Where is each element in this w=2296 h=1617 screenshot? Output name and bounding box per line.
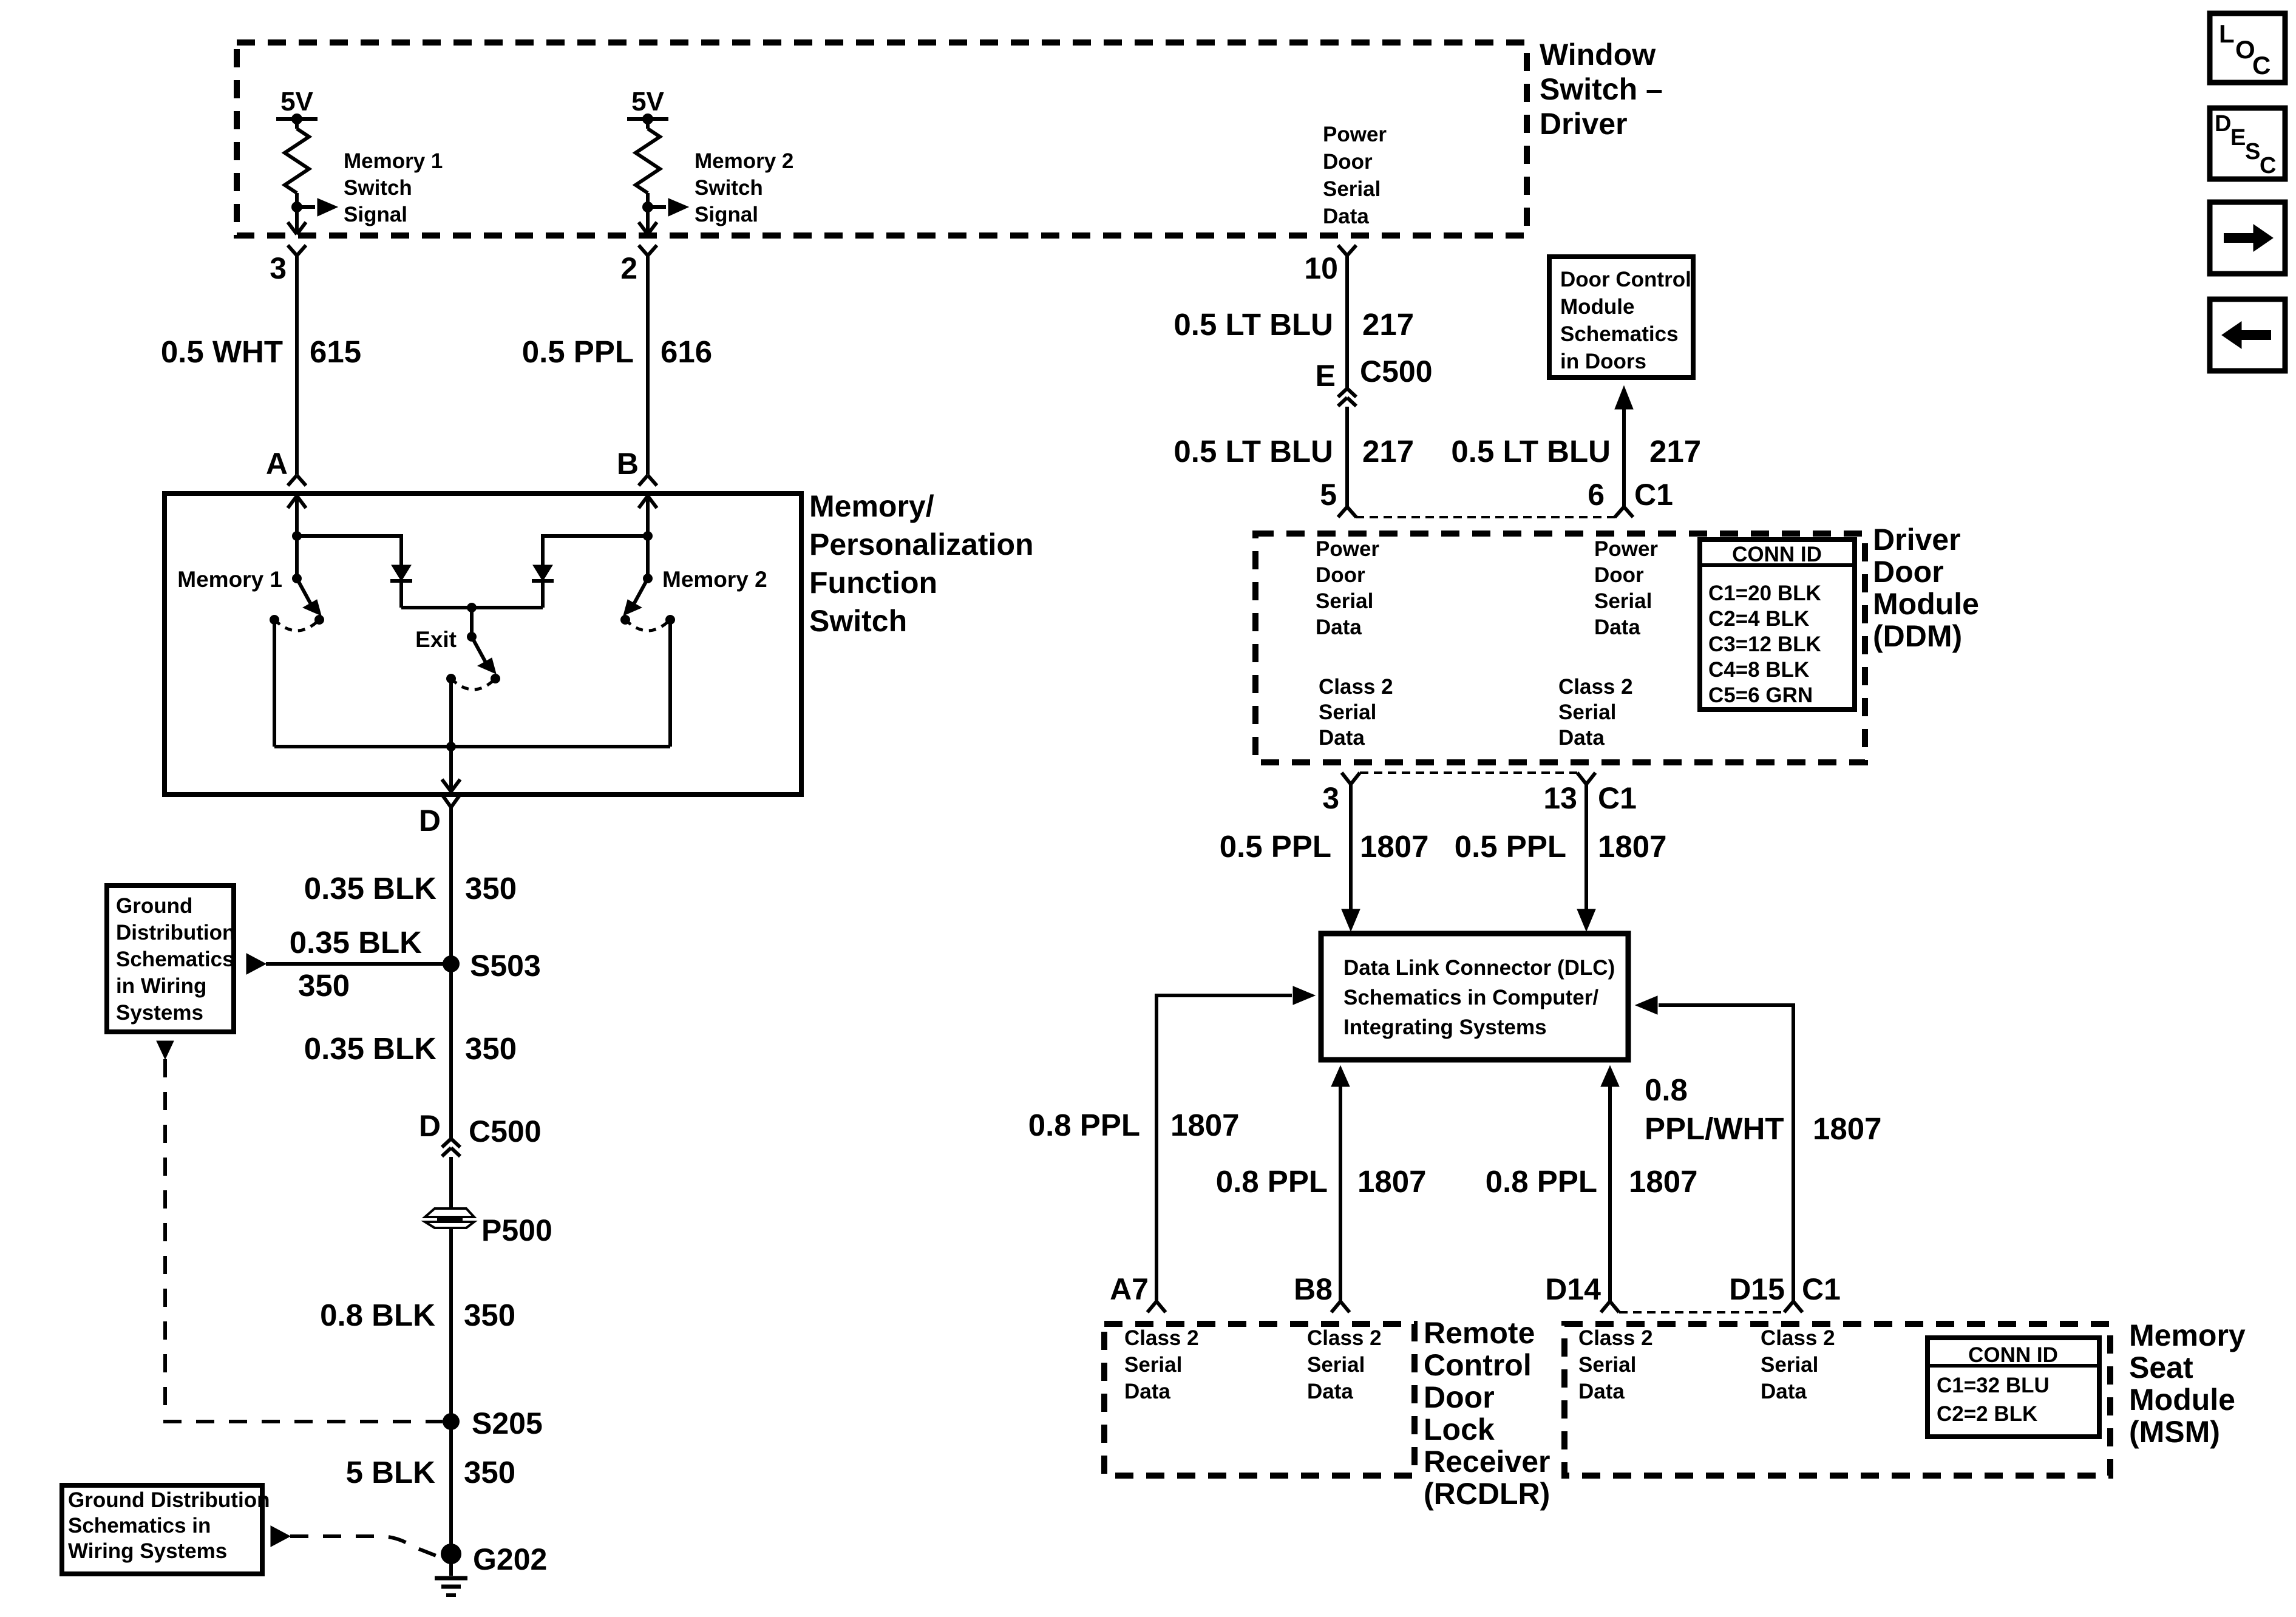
arrow: into switch at B (chevron) [639, 496, 657, 508]
svg-text:D: D [419, 1109, 441, 1143]
resistor: memory 1 pullup [285, 119, 309, 207]
svg-text:2: 2 [620, 251, 637, 285]
svg-text:(MSM): (MSM) [2129, 1415, 2220, 1449]
wire: circuit 1807 (pin 13 to DLC) [1584, 784, 1588, 910]
node: diode common [467, 603, 477, 612]
svg-text:Systems: Systems [116, 1001, 203, 1025]
label: DLC Schematics in Computer/Integrating Systems [1343, 956, 1615, 1039]
wire: circuit 350 (S503 to C500) [449, 964, 453, 1139]
svg-text:Memory/: Memory/ [809, 489, 934, 523]
pin D15 [1729, 1272, 1785, 1306]
svg-text:1807: 1807 [1629, 1164, 1697, 1199]
arrow: into DLC (from A7) [1293, 986, 1315, 1005]
svg-text:B: B [617, 447, 639, 481]
icon box: LOC [2210, 13, 2285, 83]
svg-text:Data: Data [1558, 726, 1605, 750]
svg-text:Serial: Serial [1307, 1353, 1365, 1377]
label: Remote Control Door Lock Receiver (RCDLR) [1424, 1316, 1550, 1511]
label: Class 2 Serial Data (MSM D15) [1761, 1326, 1835, 1403]
label: Power Door Serial Data (DDM right) [1594, 537, 1658, 639]
splice S205 [443, 1413, 460, 1430]
svg-text:615: 615 [310, 334, 361, 369]
switch arm: Exit [472, 637, 496, 674]
svg-text:3: 3 [1322, 781, 1339, 815]
svg-text:E: E [2230, 125, 2246, 151]
svg-text:0.35 BLK: 0.35 BLK [304, 1031, 436, 1066]
arrow: into DLC (from D15) [1635, 996, 1657, 1014]
svg-text:Memory 1: Memory 1 [344, 149, 443, 173]
svg-text:Power: Power [1323, 123, 1387, 146]
svg-text:3: 3 [270, 251, 287, 285]
connector P500 (pass-through) [425, 1209, 474, 1228]
svg-text:5V: 5V [631, 87, 664, 117]
svg-text:Class 2: Class 2 [1319, 675, 1393, 699]
svg-text:Switch: Switch [809, 604, 907, 638]
label: 0.35 BLK 350 (upper) [304, 871, 517, 906]
switch arc: memory 1 (dashed) [274, 620, 319, 631]
label: Memory 1 Switch Signal [344, 149, 443, 226]
svg-text:C2=2 BLK: C2=2 BLK [1937, 1402, 2037, 1426]
module box: Driver Door Module (dashed) [1255, 534, 1865, 762]
pin B8 [1294, 1272, 1333, 1306]
wire: memory 2 to pin 2 [646, 207, 650, 233]
svg-text:Class 2: Class 2 [1124, 1326, 1199, 1350]
node: memory 2 signal junction [642, 202, 653, 212]
connector: terminal D [442, 795, 460, 807]
svg-text:E: E [1316, 359, 1336, 393]
node B [643, 531, 653, 541]
arrow: dashed drop from ground ref 1 [157, 1041, 174, 1059]
label: 0.5 LT BLU 217 (mid) [1173, 434, 1414, 469]
label: 0.5 LT BLU 217 (upper) [1173, 307, 1414, 342]
svg-text:217: 217 [1362, 434, 1414, 469]
svg-text:CONN ID: CONN ID [1968, 1343, 2058, 1367]
switch arm: Memory 2 [623, 578, 648, 615]
label: Memory 2 Switch Signal [695, 149, 793, 226]
label: Memory 2 [662, 567, 767, 592]
label: ground distribution ref 1 [116, 894, 235, 1025]
pin 2 [620, 251, 637, 285]
svg-text:Driver: Driver [1540, 107, 1628, 141]
net 5V (memory 2 pullup) [631, 87, 664, 117]
svg-text:Door: Door [1873, 555, 1944, 589]
svg-text:Schematics in: Schematics in [68, 1514, 211, 1537]
svg-text:D: D [419, 804, 441, 838]
svg-text:350: 350 [464, 1298, 515, 1332]
arrow: into pin 2 (chevron) [639, 222, 657, 234]
svg-text:Serial: Serial [1323, 177, 1381, 201]
svg-text:Data: Data [1124, 1380, 1170, 1403]
node: memory 1 signal junction [291, 202, 302, 212]
svg-text:0.5 WHT: 0.5 WHT [161, 334, 283, 369]
svg-text:C3=12 BLK: C3=12 BLK [1708, 632, 1821, 656]
wire: connector face C1 (dashed) [1356, 516, 1615, 518]
wire: A into switch [295, 496, 299, 536]
label: 0.5 PPL 616 [522, 334, 712, 369]
wire: diode 2 to common [541, 581, 545, 608]
wire: circuit 217 (C500 to pin 5) [1345, 407, 1349, 507]
svg-text:S: S [2245, 139, 2260, 164]
label P500 [481, 1213, 552, 1247]
svg-text:Door: Door [1594, 563, 1644, 587]
svg-text:Control: Control [1424, 1348, 1532, 1382]
wire: MSM connector face C1 (dashed) [1619, 1311, 1784, 1314]
svg-text:C4=8 BLK: C4=8 BLK [1708, 658, 1809, 682]
svg-text:350: 350 [465, 1031, 517, 1066]
svg-text:Memory 2: Memory 2 [695, 149, 793, 173]
svg-text:1807: 1807 [1357, 1164, 1426, 1199]
arrow: from ground ref 2 [271, 1526, 290, 1547]
wire: circuit 217 (pin 6 to door modules) [1622, 409, 1626, 507]
label: Memory Seat Module (MSM) [2129, 1318, 2246, 1449]
svg-text:C500: C500 [1360, 354, 1433, 388]
arrow: memory 2 switch signal [668, 198, 688, 216]
splice S503 [443, 955, 460, 972]
wire: circuit 1807 (D15 to DLC) [1659, 1005, 1793, 1301]
switch: Exit (pivot) [467, 632, 477, 642]
label C1 (pin 6) [1634, 478, 1673, 512]
svg-text:C500: C500 [469, 1114, 542, 1148]
svg-text:Driver: Driver [1873, 523, 1961, 557]
wire: circuit 350 (D to S503) [449, 807, 453, 964]
wire: connector face C1 bottom (dashed) [1360, 771, 1577, 774]
connector: pin 10 (window switch) [1338, 245, 1356, 256]
wire: memory 1 switch feed [295, 536, 299, 578]
svg-text:Switch –: Switch – [1540, 72, 1663, 106]
label: 0.5 WHT 615 [161, 334, 361, 369]
svg-text:0.8 PPL: 0.8 PPL [1028, 1108, 1140, 1142]
label: Memory/Personalization Function Switch [809, 489, 1034, 638]
arrow: out of switch at D (chevron) [442, 779, 460, 792]
wire: dashed ground reference path 1 [165, 1059, 443, 1422]
label: Power Door Serial Data (window switch) [1323, 123, 1387, 228]
wire: S205 to G202 [449, 1422, 453, 1554]
svg-text:Power: Power [1594, 537, 1658, 561]
connector: pin 5 (DDM) [1338, 507, 1356, 517]
svg-text:0.8: 0.8 [1645, 1073, 1688, 1107]
label: 0.8 BLK 350 [320, 1298, 515, 1332]
connector: pin A7 (RCDLR) [1147, 1301, 1166, 1312]
svg-text:D14: D14 [1545, 1272, 1601, 1306]
svg-text:D: D [2215, 111, 2231, 137]
svg-text:Data: Data [1761, 1380, 1807, 1403]
label: 0.35 BLK 350 (lower) [304, 1031, 517, 1066]
wire: C500 to P500 [449, 1157, 453, 1209]
svg-text:Distribution: Distribution [116, 921, 235, 944]
svg-text:Memory: Memory [2129, 1318, 2246, 1352]
label S205 [472, 1406, 543, 1440]
svg-text:Power: Power [1316, 537, 1379, 561]
label: Class 2 Serial Data (RCDLR B8) [1307, 1326, 1382, 1403]
svg-text:Receiver: Receiver [1424, 1445, 1550, 1479]
svg-text:0.5 PPL: 0.5 PPL [1220, 829, 1331, 864]
pin B [617, 447, 639, 481]
wire: circuit 1807 (pin 3 to DLC) [1349, 784, 1353, 910]
label: 0.8 PPL 1807 (A7) [1028, 1108, 1240, 1142]
svg-text:0.5 LT BLU: 0.5 LT BLU [1451, 434, 1611, 469]
svg-text:Serial: Serial [1319, 700, 1376, 724]
svg-text:0.8 BLK: 0.8 BLK [320, 1298, 435, 1332]
label: Window Switch - Driver [1540, 38, 1663, 141]
svg-text:350: 350 [298, 968, 350, 1003]
label C1 (pin 13) [1598, 781, 1637, 815]
label C500 [469, 1114, 542, 1148]
svg-text:217: 217 [1649, 434, 1701, 469]
svg-text:Schematics: Schematics [1560, 322, 1679, 346]
svg-text:in Wiring: in Wiring [116, 974, 206, 998]
svg-text:Exit: Exit [415, 627, 457, 652]
pin 6 [1588, 478, 1605, 512]
svg-text:Serial: Serial [1558, 700, 1616, 724]
svg-text:Data: Data [1316, 615, 1362, 639]
module box: Remote Control Door Lock Receiver (dashed) [1104, 1324, 1415, 1476]
connector: pin 3 C1 (DDM) [1342, 773, 1360, 784]
wire: memory 2 switch feed [646, 536, 650, 578]
svg-text:Door Control: Door Control [1560, 268, 1691, 291]
label: 0.8 PPL/WHT 1807 (D15) [1645, 1073, 1881, 1146]
label: Class 2 Serial Data (MSM D14) [1578, 1326, 1653, 1403]
wire: B into switch [646, 496, 650, 536]
wire: memory 1 contact to bus [273, 620, 276, 747]
label: Exit [415, 627, 457, 652]
svg-text:0.8 PPL: 0.8 PPL [1486, 1164, 1597, 1199]
svg-text:Data: Data [1307, 1380, 1353, 1403]
label C1 (pin D15) [1802, 1272, 1841, 1306]
svg-text:0.5 LT BLU: 0.5 LT BLU [1173, 307, 1333, 342]
label: 0.8 PPL 1807 (D14) [1486, 1164, 1698, 1199]
pin 13 (DDM) [1543, 781, 1577, 815]
svg-text:PPL/WHT: PPL/WHT [1645, 1111, 1784, 1146]
svg-text:Ground Distribution: Ground Distribution [68, 1488, 270, 1512]
svg-text:L: L [2219, 19, 2235, 48]
node A [292, 531, 302, 541]
icon box: back arrow [2210, 299, 2285, 371]
svg-text:Serial: Serial [1124, 1353, 1182, 1377]
arrow: into DLC (from pin 3) [1342, 909, 1360, 931]
svg-text:Function: Function [809, 566, 937, 600]
svg-text:Class 2: Class 2 [1558, 675, 1633, 699]
label: 350 under branch [298, 968, 350, 1003]
svg-text:217: 217 [1362, 307, 1414, 342]
pin D14 [1545, 1272, 1601, 1306]
svg-text:Serial: Serial [1316, 589, 1373, 613]
svg-text:Serial: Serial [1761, 1353, 1818, 1377]
svg-text:Module: Module [2129, 1383, 2235, 1417]
arrow: memory 1 switch signal [318, 198, 338, 216]
label S503 [470, 949, 541, 983]
node: 5V junction 1 [291, 114, 302, 124]
label: ground distribution ref 2 [68, 1488, 270, 1563]
wire: diode 1 to common [399, 581, 403, 608]
svg-text:5: 5 [1320, 478, 1337, 512]
label: Memory 1 [177, 567, 282, 592]
contact: memory 2 right [665, 615, 675, 625]
connector: pin 3 (window switch) [288, 245, 306, 256]
table: DDM CONN ID [1700, 540, 1855, 710]
label: Driver Door Module (DDM) [1873, 523, 1979, 653]
switch arm: Memory 1 [297, 578, 321, 615]
svg-text:C1: C1 [1598, 781, 1637, 815]
label: door control module ref [1560, 268, 1691, 373]
arrow: into DLC (from D14) [1601, 1066, 1619, 1086]
connector: pin 13 C1 (DDM) [1577, 773, 1595, 784]
wire: circuit 1807 (D14 to DLC) [1608, 1086, 1612, 1301]
connector: pin B8 (RCDLR) [1331, 1301, 1350, 1312]
connector: pin D14 C1 (MSM) [1601, 1301, 1619, 1312]
wire: circuit 1807 (B8 to DLC) [1339, 1086, 1342, 1301]
wire: exit contact to bus [449, 679, 453, 747]
svg-text:C5=6 GRN: C5=6 GRN [1708, 683, 1813, 707]
svg-text:Remote: Remote [1424, 1316, 1535, 1350]
pin 5 [1320, 478, 1337, 512]
arrow: into DLC (from pin 13) [1577, 909, 1595, 931]
svg-text:in Doors: in Doors [1560, 350, 1646, 373]
svg-text:G202: G202 [473, 1542, 547, 1576]
arrow: into switch at A (chevron) [288, 496, 306, 508]
pin D at C500 [419, 1109, 441, 1143]
svg-text:Integrating Systems: Integrating Systems [1343, 1015, 1547, 1039]
wire: memory 1 signal tap [297, 205, 315, 209]
label: Class 2 Serial Data (DDM left) [1319, 675, 1393, 750]
connector C500 (inline, left) [442, 1139, 460, 1156]
ref box: Ground Distribution Schematics in Wiring Systems (2) [62, 1485, 262, 1574]
table: MSM CONN ID [1927, 1338, 2099, 1437]
arrow: into pin 3 (chevron) [288, 222, 306, 234]
svg-text:1807: 1807 [1598, 829, 1666, 864]
contact: memory 1 left [270, 615, 279, 625]
net 5V (memory 1 pullup) [280, 87, 313, 117]
svg-text:CONN ID: CONN ID [1732, 543, 1822, 566]
svg-text:Switch: Switch [344, 176, 412, 200]
svg-text:Class 2: Class 2 [1307, 1326, 1382, 1350]
contact: memory 1 right [314, 615, 324, 625]
label: 0.5 PPL 1807 (left) [1220, 829, 1429, 864]
svg-text:C1: C1 [1634, 478, 1673, 512]
node: bus junction [446, 742, 456, 751]
connector: pin D15 C1 (MSM) [1784, 1301, 1802, 1312]
label C500 (right) [1360, 354, 1433, 388]
diode CR2 [532, 565, 554, 581]
svg-text:6: 6 [1588, 478, 1605, 512]
svg-text:Serial: Serial [1578, 1353, 1636, 1377]
ref box: Door Control Module Schematics in Doors [1549, 257, 1693, 378]
svg-text:Lock: Lock [1424, 1412, 1495, 1446]
svg-text:Door: Door [1323, 150, 1373, 174]
switch: Memory 1 (pivot) [292, 574, 302, 583]
svg-text:0.8 PPL: 0.8 PPL [1216, 1164, 1328, 1199]
wire: node B to diode 2 [543, 536, 648, 565]
svg-text:C1: C1 [1802, 1272, 1841, 1306]
svg-text:C2=4 BLK: C2=4 BLK [1708, 607, 1809, 631]
arrow: to door control module ref [1615, 386, 1633, 409]
module box: Memory Seat Module (dashed) [1564, 1324, 2110, 1476]
svg-text:Module: Module [1560, 295, 1634, 319]
connector: terminal A [288, 475, 306, 486]
wire: circuit 616 (pin2 to B) [646, 256, 650, 475]
svg-text:C1=20 BLK: C1=20 BLK [1708, 581, 1821, 605]
label G202 [473, 1542, 547, 1576]
switch arc: exit (dashed) [451, 679, 495, 690]
switch arc: memory 2 (dashed) [625, 620, 670, 631]
contact: memory 2 left [620, 615, 630, 625]
svg-text:Door: Door [1424, 1380, 1495, 1414]
svg-text:C: C [2252, 51, 2271, 80]
svg-text:C: C [2260, 153, 2276, 178]
wire: 5V rail 2 [627, 117, 668, 121]
svg-text:0.5 PPL: 0.5 PPL [1455, 829, 1566, 864]
svg-text:Signal: Signal [344, 203, 407, 226]
label: 0.5 PPL 1807 (right) [1455, 829, 1667, 864]
contact: exit left [446, 674, 456, 683]
ref box: Data Link Connector (DLC) [1321, 934, 1628, 1060]
svg-text:Serial: Serial [1594, 589, 1652, 613]
svg-text:13: 13 [1543, 781, 1577, 815]
pin A7 [1110, 1272, 1149, 1306]
wire: circuit 1807 (A7 to DLC) [1156, 995, 1292, 1301]
wire: circuit 615 (pin3 to A) [295, 256, 299, 475]
svg-text:C1=32 BLU: C1=32 BLU [1937, 1374, 2050, 1397]
svg-text:Data: Data [1319, 726, 1365, 750]
label: 0.8 PPL 1807 (B8) [1216, 1164, 1427, 1199]
svg-text:1807: 1807 [1170, 1108, 1239, 1142]
svg-text:Wiring Systems: Wiring Systems [68, 1539, 227, 1563]
pin D [419, 804, 441, 838]
label: Class 2 Serial Data (RCDLR A7) [1124, 1326, 1199, 1403]
wire: P500 to S205 [449, 1229, 453, 1422]
svg-text:D15: D15 [1729, 1272, 1785, 1306]
pin 3 (DDM) [1322, 781, 1339, 815]
svg-text:(DDM): (DDM) [1873, 619, 1962, 653]
icon box: DESC [2210, 108, 2285, 179]
wire: switch output bus [274, 745, 670, 748]
ref box: Ground Distribution Schematics in Wiring Systems [107, 886, 234, 1032]
wire: bus to terminal D [449, 747, 453, 793]
wire: S503 branch (circuit 350) [266, 962, 451, 966]
resistor: memory 2 pullup [636, 119, 660, 207]
svg-text:A: A [266, 447, 288, 481]
svg-text:Window: Window [1540, 38, 1656, 72]
label: 0.35 BLK over branch [290, 925, 422, 960]
wire: dashed ground reference path 2 [290, 1536, 441, 1558]
label: 5 BLK 350 [346, 1455, 515, 1490]
module box: Memory/Personalization Function Switch [165, 493, 801, 795]
svg-text:Schematics: Schematics [116, 947, 234, 971]
svg-text:S503: S503 [470, 949, 541, 983]
svg-text:1807: 1807 [1360, 829, 1428, 864]
arrow: from ground ref 1 [246, 954, 266, 974]
svg-text:Seat: Seat [2129, 1351, 2193, 1385]
diode CR1 [390, 565, 412, 581]
svg-text:0.35 BLK: 0.35 BLK [290, 925, 422, 960]
svg-text:Door: Door [1316, 563, 1365, 587]
svg-text:10: 10 [1304, 251, 1338, 285]
pin 10 [1304, 251, 1338, 285]
svg-text:Signal: Signal [695, 203, 758, 226]
svg-text:0.5 LT BLU: 0.5 LT BLU [1173, 434, 1333, 469]
svg-text:Ground: Ground [116, 894, 192, 918]
svg-text:Memory 1: Memory 1 [177, 567, 282, 592]
contact: exit right [491, 674, 500, 683]
svg-text:0.35 BLK: 0.35 BLK [304, 871, 436, 906]
svg-text:Data Link Connector (DLC): Data Link Connector (DLC) [1343, 956, 1615, 980]
node: 5V junction 2 [642, 114, 653, 124]
svg-text:350: 350 [465, 871, 517, 906]
svg-text:B8: B8 [1294, 1272, 1333, 1306]
svg-text:Class 2: Class 2 [1578, 1326, 1653, 1350]
svg-text:A7: A7 [1110, 1272, 1149, 1306]
svg-text:Switch: Switch [695, 176, 763, 200]
svg-text:0.5 PPL: 0.5 PPL [522, 334, 634, 369]
